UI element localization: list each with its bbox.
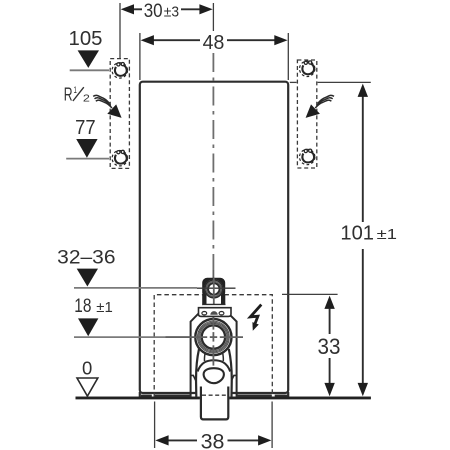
- svg-text:18: 18: [74, 296, 91, 317]
- svg-text:R: R: [64, 84, 73, 104]
- svg-text:48: 48: [203, 32, 225, 54]
- svg-text:77: 77: [75, 117, 96, 139]
- svg-text:101: 101: [340, 222, 374, 244]
- svg-text:105: 105: [69, 28, 103, 50]
- svg-text:33: 33: [318, 334, 341, 359]
- svg-text:1: 1: [74, 85, 77, 96]
- svg-text:±1: ±1: [377, 227, 397, 243]
- svg-text:30: 30: [144, 0, 163, 22]
- svg-text:32–36: 32–36: [57, 246, 115, 268]
- svg-text:±1: ±1: [96, 300, 113, 316]
- svg-text:38: 38: [201, 430, 225, 450]
- svg-text:±3: ±3: [164, 5, 179, 21]
- svg-text:2: 2: [83, 92, 90, 104]
- svg-text:0: 0: [82, 357, 92, 378]
